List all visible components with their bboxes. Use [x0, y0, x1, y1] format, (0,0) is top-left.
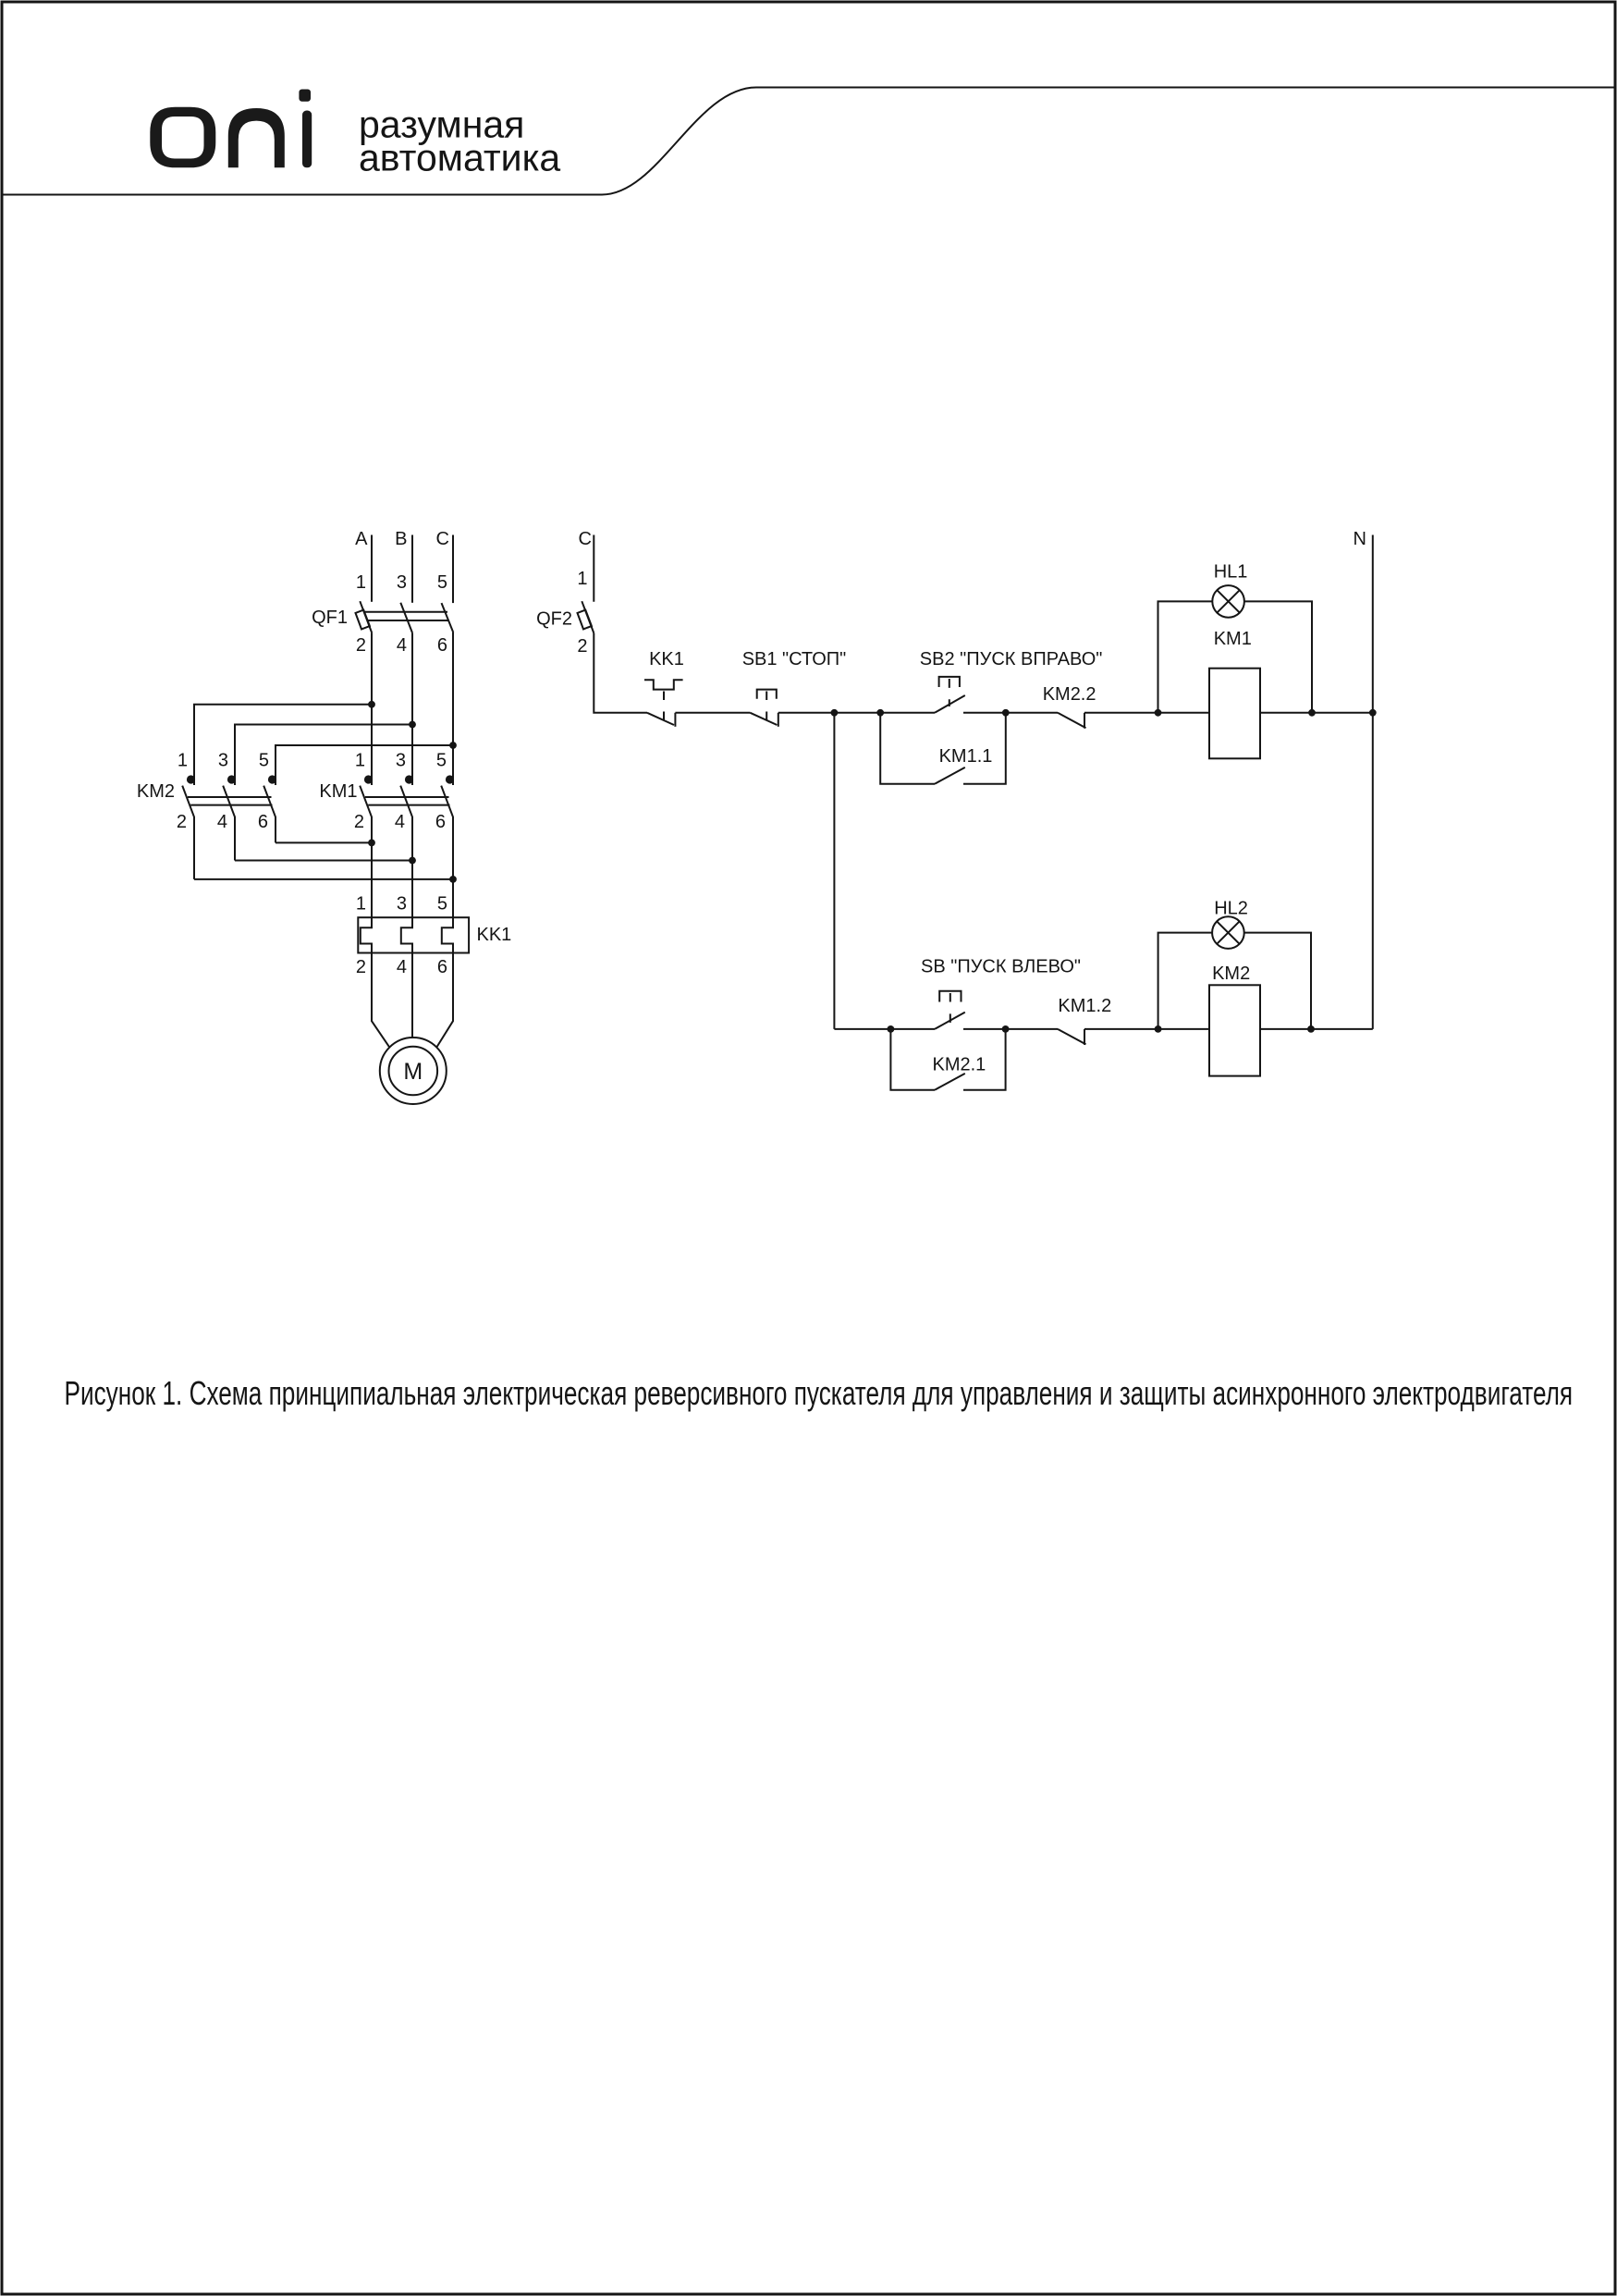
- node C control line: [593, 535, 594, 602]
- svg-text:KM1.2: KM1.2: [1058, 996, 1111, 1016]
- junction KM2.1 right: [1002, 1025, 1010, 1033]
- svg-text:KM1: KM1: [319, 781, 357, 802]
- button SB actuator: [939, 991, 961, 1002]
- lamp HL2 branch right: [1244, 933, 1311, 1029]
- breaker QF1 pole A rectangle: [356, 610, 370, 630]
- svg-text:KM2: KM2: [137, 781, 175, 802]
- thermal element KK1: [644, 680, 683, 689]
- rail coil KM2 to N: [1260, 1028, 1373, 1030]
- button SB1 post: [778, 713, 779, 727]
- contactor KM2 pole 1 blade: [182, 786, 194, 879]
- wire phase A to KM2 pole 1: [194, 705, 372, 785]
- svg-text:4: 4: [217, 812, 227, 832]
- thermal relay KK1 box: [358, 917, 469, 952]
- svg-text:QF2: QF2: [536, 609, 572, 630]
- contactor KM1 pole 1 blade: [360, 786, 372, 918]
- wire KM2 pole 4 to KM1 line B: [235, 860, 412, 862]
- CONTROL CIRCUIT: [578, 535, 1373, 1029]
- auxiliary contact KM2.1 branch: [890, 1029, 1005, 1090]
- button SB2 actuator: [939, 677, 960, 687]
- breaker QF1 linkage bar: [364, 612, 448, 620]
- svg-text:3: 3: [397, 894, 407, 915]
- contactor KM1 pole 3 blade: [400, 786, 412, 918]
- logo letter n: [228, 108, 285, 167]
- svg-text:1: 1: [356, 572, 366, 593]
- lamp HL2 circle: [1212, 916, 1244, 949]
- svg-text:6: 6: [258, 812, 268, 832]
- svg-text:1: 1: [178, 751, 188, 771]
- wire drop to lower branch: [833, 713, 835, 1029]
- rail KM1.2 to coil KM2: [1084, 1028, 1209, 1030]
- svg-text:1: 1: [356, 894, 366, 915]
- svg-text:M: M: [403, 1059, 423, 1085]
- lower rail: [834, 1028, 935, 1030]
- svg-text:KM2: KM2: [1212, 964, 1250, 984]
- thermal contact KK1 post: [674, 713, 676, 727]
- contactor KM1 pole 5 blade: [441, 786, 453, 918]
- motor M circles: [380, 1037, 447, 1104]
- svg-text:5: 5: [436, 751, 447, 771]
- thermal element KK1 stem: [663, 692, 665, 721]
- contact dot KM2 pole 3: [227, 775, 236, 783]
- coil KM1 box: [1209, 669, 1260, 759]
- junction crossover 2-6: [449, 876, 457, 883]
- auxiliary contact KM1.2 post: [1084, 1029, 1085, 1045]
- svg-text:6: 6: [437, 957, 447, 977]
- KK1 heater pole 5: [442, 917, 453, 952]
- junction rail N: [1369, 709, 1377, 717]
- svg-text:2: 2: [577, 636, 587, 657]
- junction phase A: [368, 701, 375, 708]
- contactor KM1 linkage bar: [365, 797, 450, 805]
- svg-text:HL1: HL1: [1214, 562, 1248, 583]
- lamp HL1 branch right: [1244, 601, 1312, 712]
- node A phase line: [371, 535, 373, 602]
- junction KM1.1 left: [876, 709, 884, 717]
- svg-text:6: 6: [435, 812, 446, 832]
- svg-text:2: 2: [356, 957, 366, 977]
- rail SB1 to SB2: [778, 712, 935, 714]
- svg-text:SB2 "ПУСК ВПРАВО": SB2 "ПУСК ВПРАВО": [920, 649, 1103, 669]
- junction after SB1: [831, 709, 839, 717]
- junction HL1 right: [1308, 709, 1316, 717]
- svg-text:2: 2: [354, 812, 364, 832]
- svg-text:5: 5: [259, 751, 269, 771]
- contact dot KM1 pole 3: [405, 775, 413, 783]
- svg-text:KM1: KM1: [1214, 629, 1252, 649]
- wire KK1 to motor middle: [411, 953, 413, 1038]
- wire QF1 pole B output down: [411, 632, 413, 785]
- junction crossover 4-4: [409, 857, 416, 865]
- breaker QF1 pole B blade: [400, 603, 412, 633]
- rail SB2 to KM2.2: [963, 712, 1058, 714]
- button SB stem: [949, 993, 951, 1023]
- svg-text:C: C: [579, 529, 592, 549]
- svg-text:2: 2: [177, 812, 187, 832]
- svg-text:3: 3: [218, 751, 228, 771]
- breaker QF1 pole A blade: [360, 601, 372, 632]
- node C phase line: [452, 535, 454, 604]
- button SB1 actuator: [757, 690, 777, 699]
- lamp HL1 cross: [1217, 590, 1239, 612]
- logo letter o: [150, 107, 215, 168]
- wire KM2 pole 6 to KM1 line A: [276, 841, 372, 843]
- node B phase line: [411, 535, 413, 603]
- button SB2 blade: [935, 695, 965, 713]
- rail KM2.2 to coil KM1: [1084, 712, 1209, 714]
- button SB1 stem: [766, 692, 767, 721]
- svg-text:5: 5: [437, 894, 447, 915]
- svg-text:автоматика: автоматика: [359, 137, 560, 179]
- lamp HL1 branch left: [1158, 601, 1213, 712]
- contactor KM2 linkage bar: [188, 797, 273, 805]
- junction HL1 left: [1155, 709, 1162, 717]
- svg-text:B: B: [395, 529, 407, 549]
- svg-text:2: 2: [356, 635, 366, 656]
- svg-text:5: 5: [437, 572, 447, 593]
- wire KM2 pole 2 to KM1 line C: [194, 878, 453, 880]
- junction KM2.1 left: [888, 1025, 895, 1033]
- svg-text:4: 4: [395, 812, 405, 832]
- junction HL2 left: [1155, 1025, 1162, 1033]
- svg-text:Рисунок 1. Схема принципиальна: Рисунок 1. Схема принципиальная электрич…: [65, 1375, 1574, 1412]
- rail coil KM1 to N: [1260, 712, 1373, 714]
- coil KM2 box: [1209, 985, 1260, 1075]
- contact dot KM1 pole 1: [364, 775, 373, 783]
- svg-text:6: 6: [437, 635, 447, 656]
- svg-text:HL2: HL2: [1214, 899, 1248, 919]
- wire KK1 to motor right: [436, 953, 453, 1048]
- button SB2 stem: [949, 679, 950, 706]
- KK1 heater pole 1: [361, 917, 372, 952]
- svg-text:4: 4: [397, 635, 407, 656]
- auxiliary contact KM2.1 blade: [935, 1074, 965, 1090]
- rail SB to KM1.2: [963, 1028, 1058, 1030]
- svg-text:QF1: QF1: [312, 608, 348, 628]
- logo letter i stem: [302, 111, 312, 168]
- auxiliary contact KM2.2 blade: [1058, 713, 1086, 729]
- svg-text:3: 3: [397, 572, 407, 593]
- wire QF1 pole C output down: [452, 632, 454, 785]
- junction crossover 6-2: [368, 840, 375, 847]
- junction phase C: [449, 742, 457, 749]
- lamp HL2 branch left: [1158, 933, 1213, 1029]
- junction HL2 right: [1307, 1025, 1315, 1033]
- contact dot KM1 pole 5: [446, 775, 454, 783]
- lamp HL1 circle: [1212, 585, 1244, 618]
- contactor KM2 pole 5 blade: [263, 786, 276, 843]
- auxiliary contact KM1.2 blade: [1058, 1029, 1086, 1045]
- svg-text:SB1 "СТОП": SB1 "СТОП": [742, 649, 847, 669]
- header separator curve: [2, 88, 1614, 195]
- svg-text:3: 3: [396, 751, 406, 771]
- wire KK1 to motor left: [372, 953, 389, 1048]
- svg-text:N: N: [1354, 529, 1366, 549]
- thermal contact KK1 blade: [647, 713, 674, 725]
- auxiliary contact KM1.1 branch: [880, 713, 1006, 784]
- wire QF1 pole A output down: [371, 633, 373, 785]
- lamp HL2 cross: [1217, 921, 1239, 943]
- auxiliary contact KM2.2 post: [1084, 713, 1085, 729]
- wire QF2 down to rail: [594, 633, 647, 713]
- svg-text:1: 1: [355, 751, 365, 771]
- svg-text:KM2.2: KM2.2: [1043, 684, 1096, 705]
- svg-text:KM1.1: KM1.1: [939, 746, 993, 767]
- breaker QF2 blade: [582, 601, 594, 632]
- svg-text:KK1: KK1: [477, 925, 512, 945]
- svg-text:KK1: KK1: [649, 649, 684, 669]
- svg-text:A: A: [355, 529, 368, 549]
- svg-text:1: 1: [577, 569, 587, 589]
- contactor KM2 pole 3 blade: [223, 786, 235, 861]
- contact dot KM2 pole 1: [187, 775, 195, 783]
- wire phase C to KM2 pole 5: [276, 745, 453, 785]
- junction phase B: [409, 721, 416, 729]
- breaker QF1 pole C blade: [442, 603, 454, 632]
- wire phase B to KM2 pole 3: [235, 725, 412, 786]
- auxiliary contact KM1.1 blade: [935, 767, 965, 784]
- button SB blade: [935, 1013, 965, 1029]
- button SB1 blade: [750, 713, 777, 725]
- svg-text:SB "ПУСК ВЛЕВО": SB "ПУСК ВЛЕВО": [921, 957, 1081, 977]
- figure caption: [65, 1375, 1574, 1412]
- contact dot KM2 pole 5: [268, 775, 276, 783]
- node N line: [1372, 535, 1374, 1029]
- svg-text:C: C: [436, 529, 449, 549]
- junction KM1.1 right: [1002, 709, 1010, 717]
- svg-text:KM2.1: KM2.1: [933, 1055, 986, 1075]
- rail KK1 to SB1: [675, 712, 750, 714]
- svg-text:4: 4: [397, 957, 407, 977]
- KK1 heater pole 3: [401, 917, 412, 952]
- breaker QF2 rectangle: [578, 610, 592, 630]
- logo letter i dot: [299, 90, 311, 102]
